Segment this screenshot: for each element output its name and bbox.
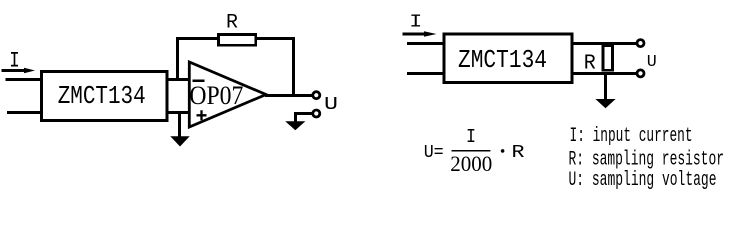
wire resistor to ground stem bbox=[604, 74, 607, 100]
svg-text:R: R bbox=[584, 51, 596, 75]
svg-text:U: U bbox=[324, 94, 338, 115]
svg-text:I: I bbox=[409, 12, 422, 32]
svg-text:ZMCT134: ZMCT134 bbox=[458, 45, 547, 75]
svg-text:ZMCT134: ZMCT134 bbox=[58, 81, 146, 111]
wire feedback right vertical down to output node bbox=[292, 39, 295, 97]
transformer ZMCT134 (left circuit) bbox=[42, 72, 168, 121]
transformer ZMCT134 (right circuit) bbox=[444, 34, 572, 83]
wire upper secondary lead (right) bbox=[572, 42, 637, 45]
wire feedback left vertical bbox=[176, 39, 179, 81]
wire feedback top right segment bbox=[256, 37, 295, 40]
node output terminal upper (right) bbox=[637, 40, 644, 47]
legend line R: sampling resistor bbox=[569, 148, 725, 171]
svg-text:OP07: OP07 bbox=[189, 81, 243, 110]
node I input label (right circuit) bbox=[409, 12, 422, 32]
node output terminal lower bbox=[313, 110, 320, 117]
legend line I: input current bbox=[570, 125, 693, 148]
ground (right circuit) bbox=[595, 99, 615, 108]
wire upper primary lead into ZMCT134 (right) bbox=[407, 42, 444, 45]
node output terminal upper bbox=[313, 92, 320, 99]
svg-text:I: input current: I: input current bbox=[570, 125, 693, 148]
node U output label (left circuit) bbox=[324, 94, 338, 115]
wire current arrow (right circuit input) bbox=[402, 31, 436, 36]
svg-text:I: I bbox=[466, 126, 476, 148]
op-amp U1 OP07 bbox=[189, 62, 266, 127]
svg-text:U: sampling voltage: U: sampling voltage bbox=[569, 169, 717, 192]
svg-text:R: sampling resistor: R: sampling resistor bbox=[569, 148, 725, 171]
wire upper primary lead into ZMCT134 (left) bbox=[6, 78, 42, 81]
wire lower primary lead into ZMCT134 (left) bbox=[7, 111, 42, 114]
resistor R sampling (right circuit) bbox=[584, 46, 613, 76]
wire current arrow (left circuit input) bbox=[2, 68, 36, 73]
ground (op-amp input, left circuit) bbox=[170, 136, 189, 146]
resistor R feedback bbox=[219, 11, 256, 45]
svg-text:U=: U= bbox=[424, 143, 444, 163]
node output terminal lower (right) bbox=[637, 70, 644, 77]
wire op-amp non-inverting input to ground bbox=[178, 113, 181, 137]
legend line U: sampling voltage bbox=[569, 169, 717, 192]
svg-text:U: U bbox=[647, 53, 657, 72]
svg-text:R: R bbox=[512, 143, 525, 163]
wire op-amp output bbox=[265, 94, 313, 97]
svg-text:2000: 2000 bbox=[450, 151, 492, 176]
formula U = I/2000 * R bbox=[424, 126, 525, 176]
wire upper secondary lead to op-amp inverting input bbox=[167, 78, 189, 81]
wire feedback top left segment bbox=[176, 37, 219, 40]
svg-text:R: R bbox=[226, 11, 238, 34]
wire lower primary lead into ZMCT134 (right) bbox=[407, 72, 444, 75]
node U output label (right circuit) bbox=[647, 53, 657, 72]
wire lower secondary lead to op-amp non-inverting input bbox=[167, 111, 189, 114]
node I input label (left circuit) bbox=[9, 47, 19, 73]
ground (output reference, left circuit) bbox=[285, 121, 305, 130]
wire lower terminal to ground bbox=[294, 112, 313, 122]
wire lower secondary lead (right) bbox=[572, 72, 637, 75]
